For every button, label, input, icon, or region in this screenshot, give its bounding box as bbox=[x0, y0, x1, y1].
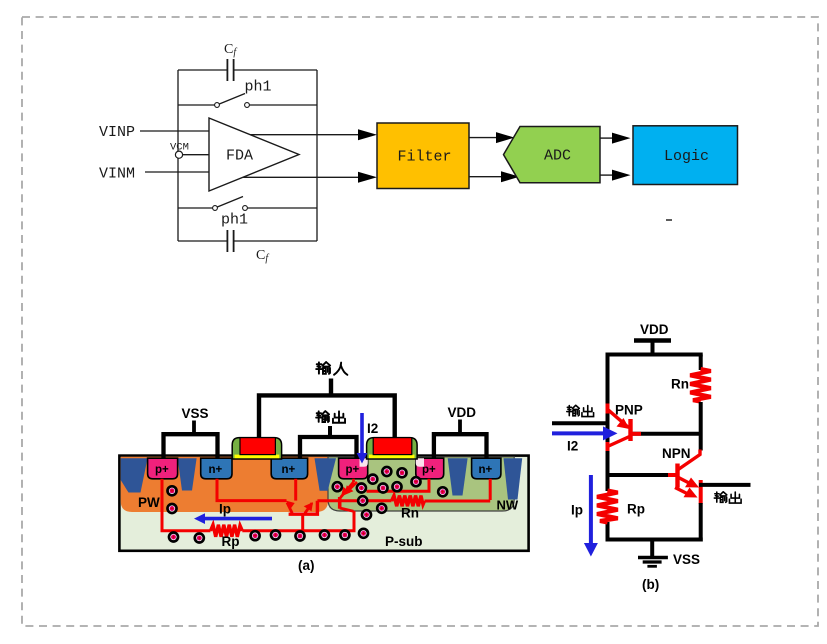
svg-text:Rp: Rp bbox=[222, 534, 240, 549]
wire VINM input bbox=[145, 171, 209, 173]
wire top rail bbox=[606, 353, 703, 357]
capacitor Cf bottom bbox=[227, 230, 233, 252]
svg-text:VINM: VINM bbox=[99, 166, 135, 183]
label 输出 output mid bbox=[316, 411, 345, 423]
svg-text:VINP: VINP bbox=[99, 124, 135, 141]
svg-text:PW: PW bbox=[138, 495, 160, 510]
gate right poly bbox=[373, 438, 412, 455]
svg-text:n+: n+ bbox=[282, 464, 296, 476]
wire top feedback branch bbox=[178, 69, 317, 71]
gate right oxide bbox=[369, 455, 415, 459]
svg-text:FDA: FDA bbox=[226, 148, 253, 165]
wire ADC to Logic bottom bbox=[600, 174, 614, 176]
label 输出 output left bbox=[567, 405, 594, 416]
wire n+C drop bbox=[489, 479, 492, 500]
wire feedback box right vertical bbox=[316, 70, 318, 241]
carriers bottom row bbox=[169, 533, 178, 542]
arrowhead into ADC bottom bbox=[501, 171, 520, 182]
diffusion p+ A bbox=[148, 458, 178, 479]
well PW bbox=[121, 457, 328, 512]
svg-text:n+: n+ bbox=[209, 464, 223, 476]
wire left vertical lower bbox=[606, 522, 610, 542]
arrowhead into ADC top bbox=[496, 132, 515, 143]
resistor Rn zigzag bbox=[392, 496, 425, 507]
wire left vertical upper bbox=[606, 355, 610, 492]
carriers cluster bbox=[333, 482, 342, 491]
resistor Rn zigzag bbox=[690, 369, 711, 402]
wire Filter to ADC top bbox=[469, 137, 498, 139]
block ADC pentagon bbox=[504, 127, 601, 183]
svg-text:p+: p+ bbox=[346, 464, 360, 476]
diffusion p+ 2 bbox=[416, 458, 444, 479]
LDD notch right of p+1 bbox=[360, 458, 368, 467]
wire n+B drop bbox=[294, 479, 297, 501]
wire VDD stem bbox=[458, 420, 462, 434]
wire input stem bbox=[329, 379, 333, 396]
svg-text:VDD: VDD bbox=[448, 405, 477, 420]
transistor PNP parasitic bbox=[338, 497, 342, 509]
transistor PNP collector bbox=[608, 437, 630, 447]
arrowhead into Filter top bbox=[358, 129, 377, 140]
svg-text:Ip: Ip bbox=[571, 503, 583, 518]
wire bottom feedback branch bbox=[178, 240, 317, 242]
transistor PNP emitter bbox=[608, 409, 629, 427]
svg-text:I2: I2 bbox=[367, 421, 378, 436]
wire right vertical upper bbox=[699, 355, 703, 371]
svg-text:PNP: PNP bbox=[615, 403, 643, 418]
parasitic red net: VSS p+ down and bottom bus with resistor Rp bbox=[162, 479, 211, 531]
svg-text:Ip: Ip bbox=[219, 502, 231, 517]
transistor NPN collector bbox=[678, 450, 701, 471]
stray dash mark bbox=[666, 219, 672, 221]
wire FDA output bottom bbox=[243, 176, 359, 178]
wire ADC to Logic top bbox=[600, 137, 614, 139]
wire pnp base to nwell with resistor Rn bbox=[317, 499, 391, 502]
svg-text:VDD: VDD bbox=[640, 322, 669, 337]
transistor PNP bar bbox=[628, 419, 632, 441]
current arrow I2 blue bbox=[360, 413, 364, 455]
wire output right bbox=[699, 483, 751, 487]
svg-text:VSS: VSS bbox=[182, 406, 209, 421]
wire bottom bus right bbox=[242, 511, 354, 531]
arrowhead into Logic top bbox=[612, 133, 631, 144]
ground symbol bbox=[638, 556, 668, 560]
current arrow I2 blue bbox=[552, 431, 604, 435]
wire VINP input bbox=[140, 130, 209, 132]
resistor Rp zigzag bbox=[597, 491, 618, 523]
wire FDA output top bbox=[250, 134, 359, 136]
svg-text:Rp: Rp bbox=[627, 502, 645, 517]
wire feedback box left vertical bbox=[177, 70, 179, 241]
svg-text:Rn: Rn bbox=[671, 377, 689, 392]
svg-text:P-sub: P-sub bbox=[385, 534, 423, 549]
wire p+2 drop bbox=[367, 479, 430, 492]
wire VCM bbox=[183, 154, 209, 156]
resistor Rp zigzag bbox=[211, 525, 243, 537]
STI trapezoid 2 bbox=[178, 458, 197, 490]
wire VDD stub bbox=[651, 341, 655, 357]
current arrow Ip blue bbox=[203, 517, 272, 521]
wire pnp base to right branch bbox=[631, 432, 701, 436]
STI trapezoid 3 bbox=[315, 458, 337, 491]
svg-text:(b): (b) bbox=[642, 577, 659, 592]
LDD notch left of p+2 bbox=[416, 458, 424, 467]
wire npn base from n+A bbox=[217, 479, 287, 501]
svg-text:ph1: ph1 bbox=[245, 79, 272, 96]
wire output bar and legs bbox=[300, 437, 357, 458]
power rail VDD bar bbox=[634, 338, 671, 343]
wire bottom rail bbox=[606, 538, 703, 542]
arrow fan into pnp bbox=[346, 482, 357, 493]
carriers left wire bbox=[168, 486, 177, 495]
svg-text:p+: p+ bbox=[155, 464, 169, 476]
svg-text:VSS: VSS bbox=[673, 552, 700, 567]
diffusion n+ B bbox=[271, 458, 307, 479]
svg-text:n+: n+ bbox=[479, 464, 493, 476]
wire VSS bar and legs bbox=[164, 434, 218, 458]
svg-text:p+: p+ bbox=[422, 464, 436, 476]
STI trapezoid 1 bbox=[121, 458, 148, 492]
current arrow Ip blue bbox=[589, 475, 593, 544]
diffusion n+ C bbox=[472, 458, 501, 479]
svg-text:(a): (a) bbox=[298, 558, 315, 573]
wire input bar and legs bbox=[259, 395, 395, 437]
gate left spacers bbox=[232, 438, 281, 459]
gate left oxide bbox=[235, 455, 280, 459]
capacitor Cf top bbox=[227, 59, 233, 81]
transistor NPN emitter arrows bbox=[678, 477, 691, 484]
op-amp FDA triangle bbox=[209, 118, 299, 191]
switch ph1 bottom bbox=[178, 207, 317, 209]
node VCM terminal bbox=[175, 151, 182, 158]
svg-text:Logic: Logic bbox=[664, 148, 709, 165]
wire output stem bbox=[328, 426, 332, 436]
STI trapezoid 4 bbox=[448, 458, 468, 495]
svg-text:ADC: ADC bbox=[544, 148, 571, 165]
svg-text:NW: NW bbox=[497, 498, 519, 513]
gate right spacers bbox=[367, 438, 418, 459]
arrowhead into Logic bottom bbox=[612, 170, 631, 181]
wire right vertical mid bbox=[699, 402, 703, 451]
transistor NPN parasitic: bar, diagonals, arrows, drop bbox=[289, 501, 318, 514]
block Filter bbox=[377, 123, 469, 189]
substrate P-sub bbox=[119, 456, 528, 551]
label 输入 input bbox=[316, 362, 347, 375]
wire VSS stem bbox=[192, 421, 196, 434]
switch ph1 top bbox=[178, 104, 317, 106]
block Logic bbox=[633, 126, 738, 185]
svg-text:Filter: Filter bbox=[398, 149, 452, 166]
ground stub bbox=[650, 540, 654, 558]
svg-text:ph1: ph1 bbox=[221, 212, 248, 229]
STI trapezoid 5 bbox=[504, 458, 523, 499]
svg-text:NPN: NPN bbox=[662, 446, 691, 461]
transistor NPN bar bbox=[675, 464, 679, 488]
wire VDD bar and legs bbox=[434, 434, 487, 458]
arrowhead into Filter bottom bbox=[358, 172, 377, 183]
svg-text:Rn: Rn bbox=[401, 506, 419, 521]
wire output left bbox=[552, 421, 606, 425]
diffusion n+ A bbox=[201, 458, 232, 479]
label 输出 output right bbox=[714, 492, 741, 503]
red stub below output junction bbox=[699, 480, 703, 504]
well NW bbox=[328, 457, 514, 511]
red joints on left vertical bbox=[606, 404, 610, 414]
wire Filter to ADC bottom bbox=[469, 176, 503, 178]
wire npn base bbox=[606, 473, 669, 477]
gate left poly bbox=[240, 438, 275, 455]
diffusion p+ 1 bbox=[339, 458, 368, 479]
wire right vertical lower bbox=[699, 503, 703, 542]
svg-text:I2: I2 bbox=[567, 439, 578, 454]
